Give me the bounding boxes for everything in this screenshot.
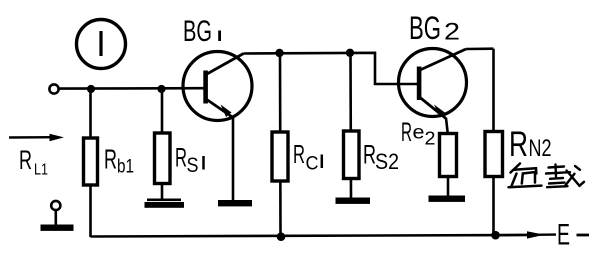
input terminal (open circle) [49,84,58,93]
junction node at Rb1 top [87,85,95,93]
junction node bottom rail at RC1 [277,232,286,241]
svg-text:2: 2 [444,19,460,46]
label Re2 [401,117,436,149]
resistor RN2 [485,132,503,177]
wire: input to BG1 base [59,87,204,90]
wire: RC1 column [279,53,282,237]
bottom rail wire [91,235,528,237]
common input terminal (open circle) [51,201,60,210]
label BG2 [409,10,460,46]
transistor BG1 [183,52,252,121]
resistor RC1 [272,132,288,181]
label RS2 [363,140,399,175]
svg-text:2: 2 [425,129,436,149]
svg-text:R: R [104,144,117,175]
arrow to E- supply [496,231,557,238]
svg-text:BG: BG [409,10,441,46]
label RN2 [509,125,552,164]
svg-text:S: S [187,154,199,177]
svg-text:R: R [293,139,305,169]
wire: Re2 to ground [447,177,450,198]
label load (Chinese 载) [546,165,584,188]
svg-text:e: e [413,123,425,144]
svg-text:N2: N2 [529,135,552,162]
label BG1 [183,15,220,48]
resistor Re2 [440,134,457,177]
svg-text:E: E [557,219,570,252]
svg-text:b1: b1 [117,157,134,178]
wire: RS2 column [349,53,352,199]
resistor Rb1 [84,138,98,185]
ground under RS2 [336,198,371,204]
resistor RS1 [155,133,171,184]
label Rb1 [104,144,134,178]
svg-text:R: R [401,117,412,147]
label E- [557,219,589,252]
svg-text:R: R [509,125,528,164]
wire: top rail BG1 collector to BG2 base [244,53,418,84]
label RL1 [19,145,48,179]
resistor RS2 [344,131,360,179]
svg-text:R: R [175,143,187,173]
input signal arrow [9,134,64,141]
junction node top rail at RS2 [346,49,354,57]
svg-text:R: R [19,145,32,175]
junction node bottom rail at RN2 [491,231,500,240]
transistor BG2 [399,49,467,119]
wire: RS1 column [161,89,164,201]
svg-text:L1: L1 [34,162,48,179]
svg-text:C: C [306,154,319,175]
ground under Re2 [429,196,466,202]
wire: Rb1 column (node to bottom rail) [89,89,92,237]
wire: terminal to ground [54,210,57,226]
label load (Chinese 负) [509,164,542,188]
ground under RS1 [145,199,185,208]
wire: BG2 emitter to Re2 [446,118,448,134]
svg-text:S2: S2 [375,149,399,174]
svg-text:BG: BG [183,15,212,48]
ground at input common [41,225,74,231]
junction node top rail at RC1 [275,49,283,57]
wire: BG2 collector to RN2 column [466,49,494,236]
label RC1 [293,139,322,175]
wire: BG1 emitter down [232,116,235,201]
label RS1 [175,143,204,178]
ground under BG1 emitter [218,200,252,206]
stage marker circle 1 [77,20,126,69]
junction node at RS1 top [157,85,165,93]
